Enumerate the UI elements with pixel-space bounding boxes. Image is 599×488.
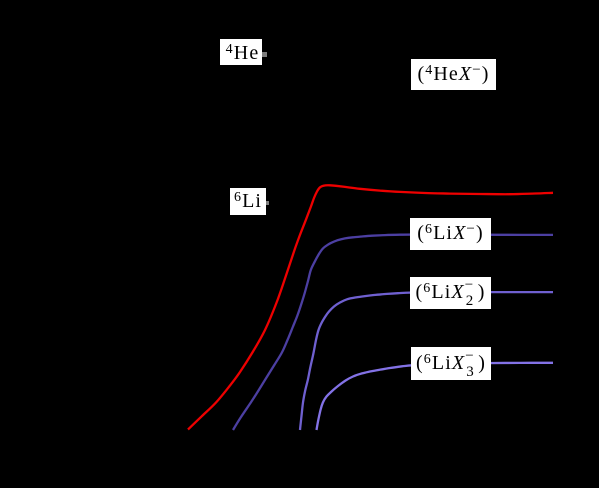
label (6LiX2-) bbox=[410, 277, 491, 309]
notch right of 6Li box bbox=[265, 201, 269, 205]
curve (6LiX3-) light violet bbox=[317, 363, 554, 430]
label (4HeX-) bbox=[411, 59, 496, 90]
label 6Li bbox=[230, 188, 266, 215]
curve (6LiX2-) medium violet bbox=[300, 292, 553, 430]
label (6LiX-) bbox=[410, 218, 491, 250]
label (6LiX3-) bbox=[411, 347, 491, 380]
curve 6Li (red) bbox=[188, 185, 553, 429]
curve (6LiX-) dark violet bbox=[233, 235, 553, 431]
notch right of 4He box bbox=[261, 52, 267, 57]
label 4He bbox=[220, 39, 262, 65]
